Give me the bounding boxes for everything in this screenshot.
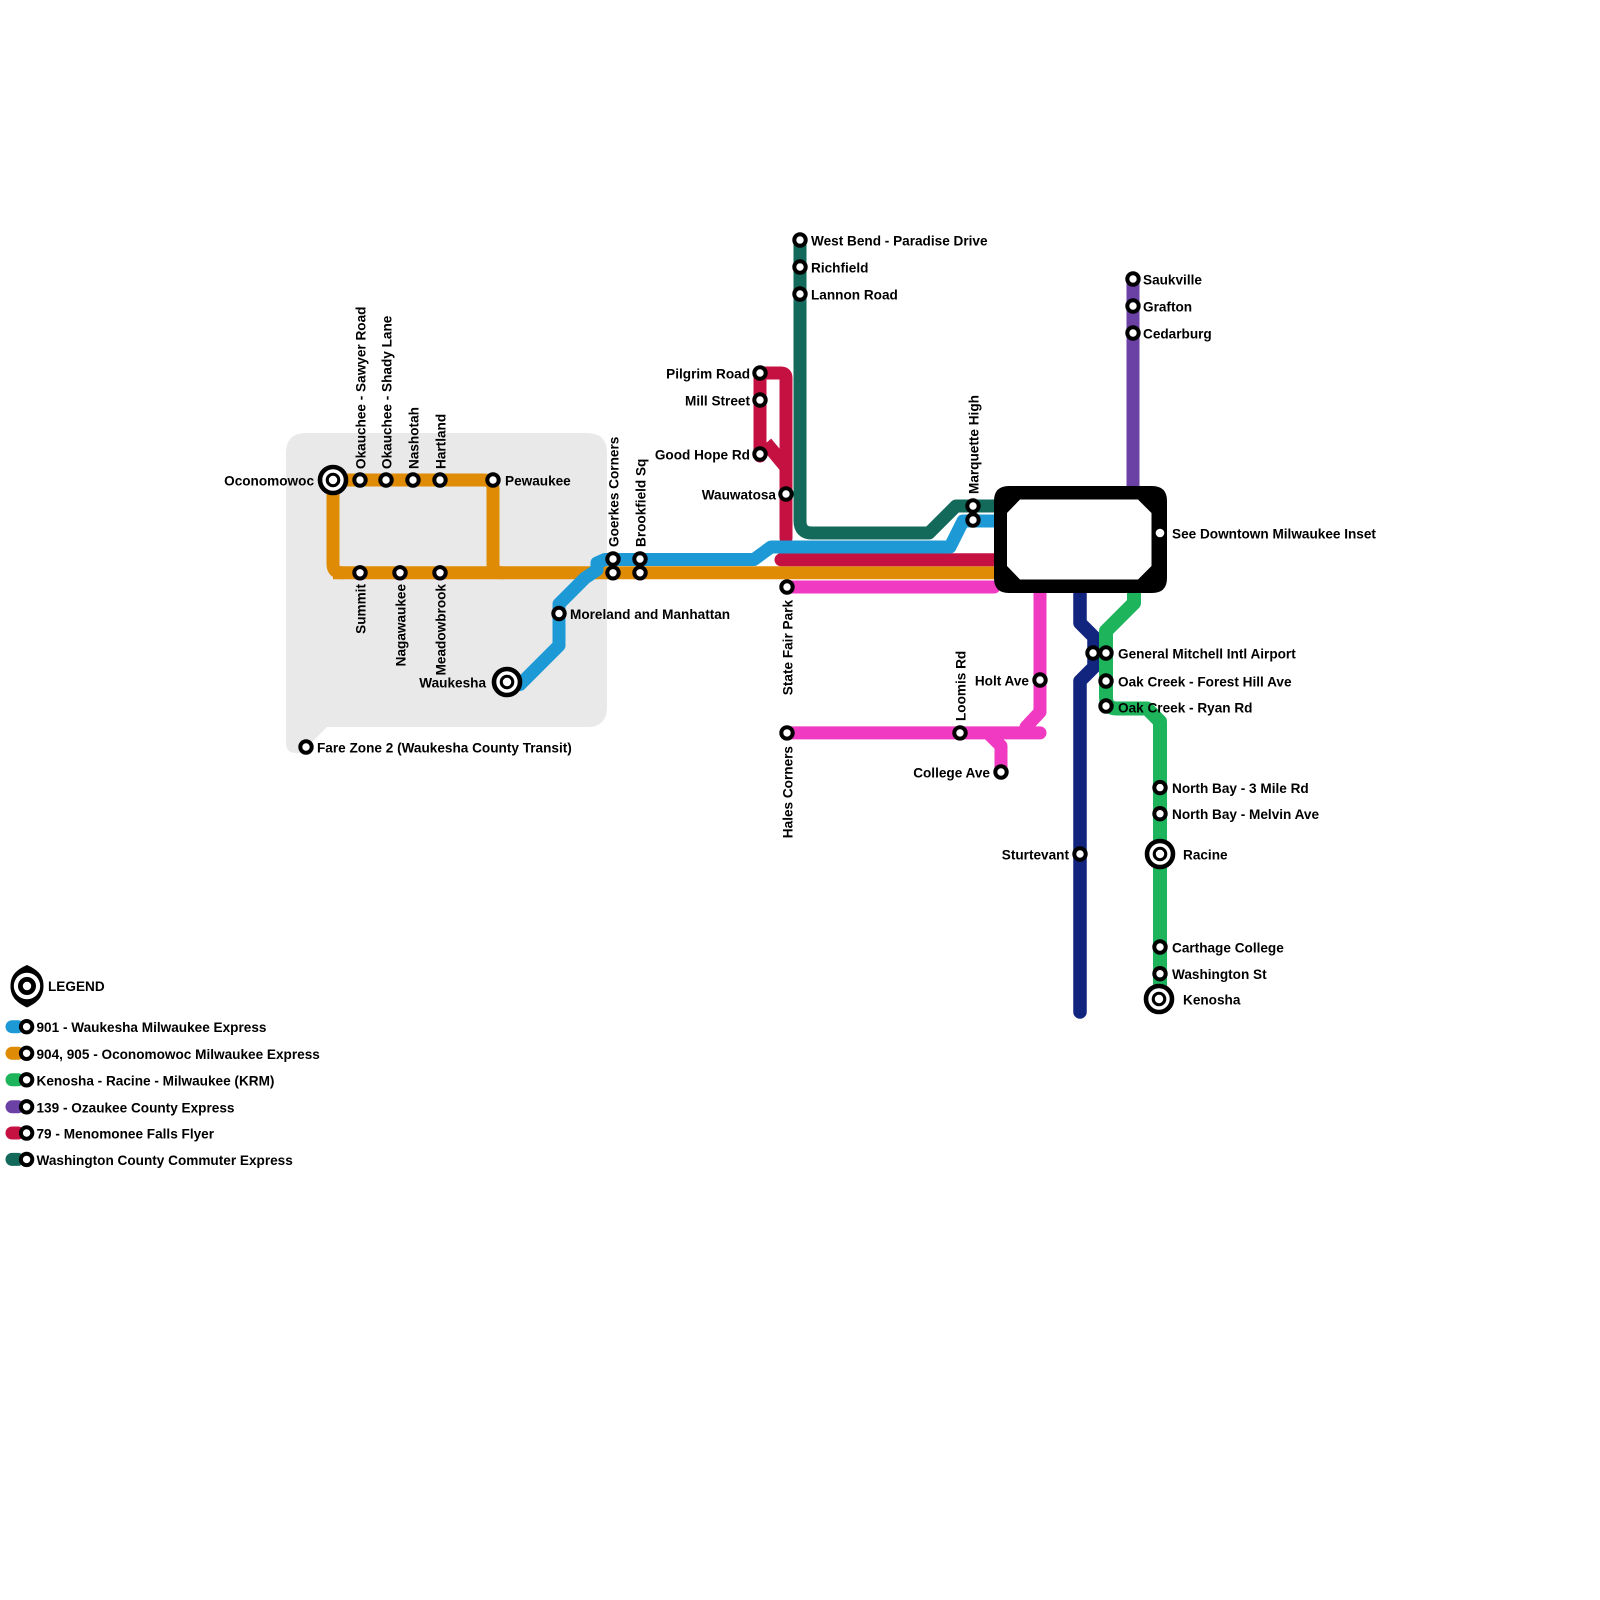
legend row 79: [12, 1127, 18, 1140]
svg-text:Kenosha: Kenosha: [1183, 993, 1241, 1008]
legend row washington county: [12, 1153, 18, 1166]
svg-text:Fare Zone 2 (Waukesha County T: Fare Zone 2 (Waukesha County Transit): [317, 741, 572, 756]
station Holt Ave: [1034, 674, 1045, 685]
svg-text:Oconomowoc: Oconomowoc: [224, 474, 314, 489]
svg-text:Good Hope Rd: Good Hope Rd: [655, 448, 750, 463]
downtown milwaukee inset rect: [994, 486, 1167, 593]
svg-text:Racine: Racine: [1183, 848, 1228, 863]
svg-text:Sturtevant: Sturtevant: [1002, 848, 1070, 863]
svg-text:Washington County Commuter Exp: Washington County Commuter Express: [37, 1153, 293, 1168]
svg-text:Holt Ave: Holt Ave: [975, 674, 1030, 689]
green KRM route: [1106, 592, 1160, 999]
svg-text:Pilgrim Road: Pilgrim Road: [666, 367, 750, 382]
station Okauchee - Sawyer Road: [354, 474, 365, 485]
route 79 red: good hope connector diagonal: [766, 443, 786, 467]
legend row KRM: [12, 1073, 18, 1086]
station Cedarburg: [1127, 327, 1138, 338]
magenta route: college ave branch: [989, 734, 1001, 770]
station Marquette High blue: [967, 514, 978, 525]
route 904/905 orange: left loop leg: [333, 480, 342, 573]
station College Ave: [995, 766, 1006, 777]
svg-text:North Bay - 3 Mile Rd: North Bay - 3 Mile Rd: [1172, 781, 1309, 796]
station Pewaukee: [487, 474, 498, 485]
station Richfield: [794, 261, 805, 272]
legend pin icon: [11, 965, 44, 1008]
station Hales Corners: [781, 727, 792, 738]
svg-text:See Downtown Milwaukee Inset: See Downtown Milwaukee Inset: [1172, 527, 1376, 542]
station Pilgrim Road: [754, 367, 765, 378]
route 79 red: left branch with loop: [754, 373, 767, 457]
magenta route: horizontal hales corners: [787, 726, 1040, 739]
svg-text:Lannon Road: Lannon Road: [811, 288, 898, 303]
fare zone 2 gray area: [286, 433, 607, 753]
svg-text:State Fair Park: State Fair Park: [781, 600, 796, 696]
svg-text:Waukesha: Waukesha: [419, 676, 486, 691]
station Wauwatosa: [780, 488, 791, 499]
route 904/905 orange: top line and Pewaukee leg: [333, 480, 502, 573]
svg-text:Meadowbrook: Meadowbrook: [434, 584, 449, 676]
svg-text:Hartland: Hartland: [434, 414, 449, 469]
station Oak Creek - Forest Hill Ave: [1100, 675, 1111, 686]
legend row 139: [12, 1100, 18, 1113]
station North Bay - Melvin Ave: [1154, 808, 1165, 819]
station Washington St: [1154, 968, 1165, 979]
station Okauchee - Shady Lane: [380, 474, 391, 485]
svg-text:139 - Ozaukee County Express: 139 - Ozaukee County Express: [37, 1100, 235, 1115]
svg-text:Oak Creek - Forest Hill Ave: Oak Creek - Forest Hill Ave: [1118, 675, 1292, 690]
svg-text:General Mitchell Intl Airport: General Mitchell Intl Airport: [1118, 647, 1296, 662]
svg-text:Marquette High: Marquette High: [967, 395, 982, 494]
svg-text:LEGEND: LEGEND: [48, 979, 105, 994]
svg-text:Washington St: Washington St: [1172, 967, 1267, 982]
station Goerkes Corners orange: [607, 567, 618, 578]
station Mill Street: [754, 394, 765, 405]
station Good Hope Rd: [754, 448, 765, 459]
terminus Kenosha: [1146, 986, 1172, 1012]
station Marquette High teal: [967, 500, 978, 511]
station West Bend - Paradise Drive: [794, 234, 805, 245]
svg-text:Pewaukee: Pewaukee: [505, 474, 571, 489]
route 901 blue: [508, 521, 994, 685]
svg-text:Richfield: Richfield: [811, 261, 868, 276]
station Fare Zone 2: [300, 741, 311, 752]
svg-text:Cedarburg: Cedarburg: [1143, 327, 1212, 342]
svg-text:Summit: Summit: [354, 584, 369, 634]
svg-text:West Bend - Paradise Drive: West Bend - Paradise Drive: [811, 234, 988, 249]
station Grafton: [1127, 300, 1138, 311]
station Summit: [354, 567, 365, 578]
svg-text:Loomis Rd: Loomis Rd: [954, 651, 969, 721]
svg-text:Okauchee - Sawyer Road: Okauchee - Sawyer Road: [354, 307, 369, 469]
station Sturtevant: [1074, 848, 1085, 859]
station Lannon Road: [794, 288, 805, 299]
svg-text:901 - Waukesha Milwaukee Expre: 901 - Waukesha Milwaukee Express: [37, 1020, 267, 1035]
station Loomis Rd: [954, 727, 965, 738]
station North Bay - 3 Mile Rd: [1154, 782, 1165, 793]
purple route 139: [1127, 279, 1140, 486]
svg-text:79 - Menomonee Falls Flyer: 79 - Menomonee Falls Flyer: [37, 1127, 215, 1142]
station Saukville: [1127, 273, 1138, 284]
station General Mitchell navy: [1087, 647, 1098, 658]
svg-text:Wauwatosa: Wauwatosa: [702, 488, 777, 503]
see downtown inset dot: [1156, 529, 1165, 538]
svg-text:College Ave: College Ave: [913, 766, 990, 781]
svg-text:Hales Corners: Hales Corners: [781, 746, 796, 838]
legend row 904,905: [12, 1047, 18, 1060]
route 79 red: right loop branch: [763, 373, 786, 538]
station State Fair Park: [781, 581, 792, 592]
station Hartland: [434, 474, 445, 485]
navy route: [1080, 592, 1094, 1012]
svg-text:North Bay - Melvin Ave: North Bay - Melvin Ave: [1172, 807, 1319, 822]
route 904/905 orange: bottom main line: [333, 566, 994, 579]
terminus Oconomowoc: [320, 467, 346, 493]
legend row 901: [12, 1020, 18, 1033]
svg-text:Okauchee - Shady Lane: Okauchee - Shady Lane: [380, 315, 395, 469]
svg-text:904, 905 - Oconomowoc Milwauke: 904, 905 - Oconomowoc Milwaukee Express: [37, 1047, 320, 1062]
station Nashotah: [407, 474, 418, 485]
svg-text:Kenosha - Racine - Milwaukee (: Kenosha - Racine - Milwaukee (KRM): [37, 1073, 275, 1088]
station Carthage College: [1154, 941, 1165, 952]
svg-text:Grafton: Grafton: [1143, 300, 1192, 315]
station Moreland and Manhattan: [553, 608, 564, 619]
station Goerkes Corners blue: [607, 553, 618, 564]
svg-text:Nashotah: Nashotah: [407, 407, 422, 469]
station Brookfield Sq orange: [634, 567, 645, 578]
station Oak Creek - Ryan Rd: [1100, 700, 1111, 711]
svg-text:Goerkes Corners: Goerkes Corners: [607, 437, 622, 547]
svg-text:Oak Creek - Ryan Rd: Oak Creek - Ryan Rd: [1118, 701, 1252, 716]
washington county teal route: [800, 239, 994, 533]
magenta route: vertical from downtown: [1026, 592, 1040, 727]
svg-text:Nagawaukee: Nagawaukee: [394, 584, 409, 667]
magenta route: state fair park to downtown: [787, 581, 994, 594]
station General Mitchell green: [1100, 647, 1111, 658]
svg-text:Moreland and Manhattan: Moreland and Manhattan: [570, 607, 730, 622]
station Brookfield Sq blue: [634, 553, 645, 564]
svg-text:Saukville: Saukville: [1143, 273, 1202, 288]
station Meadowbrook: [434, 567, 445, 578]
terminus Waukesha: [494, 669, 520, 695]
svg-text:Mill Street: Mill Street: [685, 394, 750, 409]
terminus Racine: [1147, 841, 1173, 867]
svg-text:Carthage College: Carthage College: [1172, 941, 1284, 956]
svg-text:Brookfield Sq: Brookfield Sq: [634, 459, 649, 547]
station Nagawaukee: [394, 567, 405, 578]
route 79 red: horizontal to downtown: [781, 553, 994, 566]
